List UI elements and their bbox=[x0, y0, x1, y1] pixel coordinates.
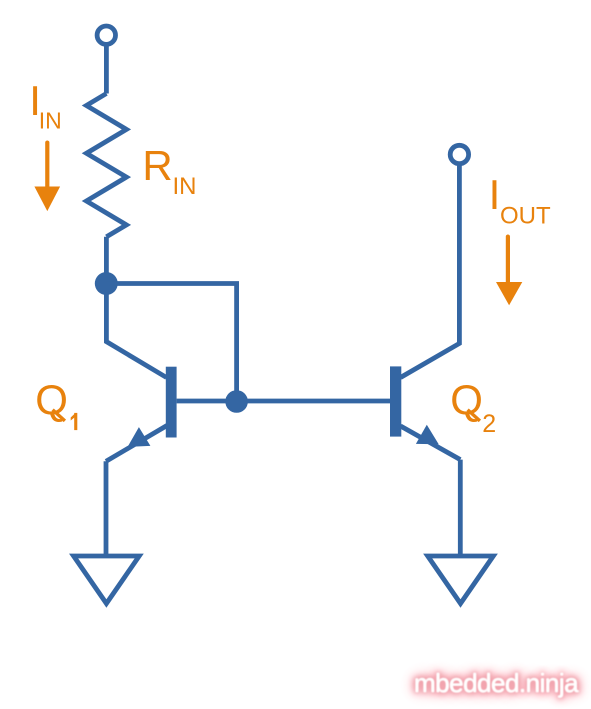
wire (Q1 emitter to ground) bbox=[104, 461, 109, 555]
wire (base rail between Q1 and Q2) bbox=[177, 399, 390, 404]
label Q_1 tail stroke bbox=[53, 410, 65, 421]
wire (node A to base rail corner) bbox=[106, 284, 236, 402]
watermark mbedded.ninja bbox=[414, 670, 578, 696]
watermark white core bbox=[414, 670, 578, 696]
Q1 emitter arrowhead bbox=[128, 427, 151, 447]
current arrow I_IN bbox=[34, 143, 60, 212]
terminal (input) bbox=[97, 26, 115, 44]
wire (Q2 emitter to ground) bbox=[458, 460, 463, 556]
wire (Q1 emitter diagonal) bbox=[106, 426, 167, 462]
label Q_1 subscript flag bbox=[71, 413, 76, 421]
terminal (output) bbox=[450, 145, 468, 163]
wire (resistor bottom to node A) bbox=[104, 237, 109, 284]
transistor Q2 (base bar) bbox=[390, 366, 401, 436]
svg-text:OUT: OUT bbox=[500, 202, 551, 229]
svg-text:R: R bbox=[142, 142, 172, 189]
node A (junction dot, collector/base tie of Q1) bbox=[95, 272, 118, 295]
ground (Q2) bbox=[428, 556, 494, 604]
svg-text:Q: Q bbox=[35, 376, 68, 423]
transistor Q1 (base bar) bbox=[166, 367, 177, 438]
svg-text:2: 2 bbox=[482, 410, 496, 438]
resistor R_IN bbox=[86, 94, 126, 237]
wire (Q1 collector) bbox=[106, 284, 166, 378]
node B (junction dot on base rail) bbox=[225, 390, 248, 413]
svg-text:IN: IN bbox=[173, 173, 197, 200]
ground (Q1) bbox=[74, 556, 140, 604]
svg-text:IN: IN bbox=[39, 108, 62, 134]
Q2 emitter arrowhead bbox=[416, 425, 439, 445]
label Q_1 subscript stem bbox=[74, 413, 77, 430]
wire (output terminal to Q2 collector) bbox=[401, 164, 460, 378]
svg-text:I: I bbox=[489, 171, 501, 218]
label Q_2 tail stroke bbox=[468, 410, 480, 421]
current arrow I_OUT bbox=[496, 237, 522, 306]
wire (Q2 emitter diagonal) bbox=[401, 426, 461, 460]
svg-text:Q: Q bbox=[450, 376, 483, 423]
wire (terminal to resistor top) bbox=[104, 44, 109, 93]
